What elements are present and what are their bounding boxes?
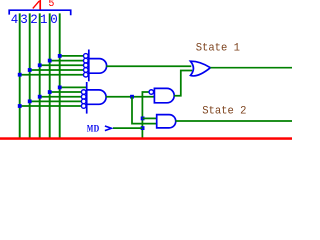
node junction U2out/branch	[130, 95, 134, 99]
node junction bit0/U2	[58, 86, 62, 90]
node junction bit3/U2	[28, 99, 32, 103]
node junction bit1/U2	[48, 90, 52, 94]
wire U3 output riser to U4	[174, 71, 192, 96]
and-gate U1 body	[89, 59, 107, 74]
nand-gate U3 bubble input1	[149, 90, 154, 95]
svg-text:0: 0	[50, 13, 58, 27]
node junction bit4/U2	[18, 104, 22, 108]
or-gate U4	[190, 61, 210, 76]
wire tap to U1 input5	[20, 74, 84, 76]
wire tap to U1 input4	[30, 69, 84, 71]
wire MD tap to U5 input1	[142, 117, 156, 119]
node junction bit2/U1	[38, 63, 42, 67]
U2 inverter bubble pin4	[81, 99, 86, 104]
wire MD pin to riser	[113, 127, 142, 129]
ground rail (red)	[0, 137, 292, 140]
wire bit3 vertical	[29, 13, 31, 137]
and-gate U1 input bar	[88, 50, 90, 82]
U1 inverter bubble pin2	[84, 58, 89, 63]
node junction MD/U5	[141, 117, 145, 121]
wire U4 output State 1	[210, 67, 292, 69]
svg-text:2: 2	[30, 13, 38, 27]
bus entry wire (red, 5-bit bus from top)	[39, 0, 41, 10]
wire bit0 vertical	[59, 13, 61, 137]
svg-text:4: 4	[11, 13, 19, 27]
and-gate U2 body	[87, 90, 106, 104]
wire tap to U2 input2	[50, 91, 82, 93]
wire U5 output State 2	[176, 120, 293, 122]
node junction MD pin	[141, 126, 145, 130]
node junction bit3/U1	[28, 68, 32, 72]
port chevron MD	[105, 126, 112, 131]
nand-gate U3 body	[154, 88, 174, 102]
node junction bit0/U1	[58, 54, 62, 58]
wire bit2 vertical	[39, 13, 41, 137]
wire tap to U2 input1	[60, 86, 86, 88]
svg-text:State 1: State 1	[196, 42, 240, 54]
bus width slash	[33, 1, 39, 8]
svg-text:1: 1	[40, 13, 48, 27]
svg-text:D: D	[94, 123, 100, 134]
U1 inverter bubble pin5	[84, 72, 89, 77]
wire tap to U1 input2	[50, 60, 84, 62]
wire tap to U2 input4	[30, 100, 82, 102]
and-gate U2 input bar	[86, 82, 88, 114]
svg-text:State 2: State 2	[202, 105, 246, 117]
svg-text:5: 5	[48, 0, 54, 10]
svg-text:3: 3	[20, 13, 28, 27]
U2 inverter bubble pin5	[81, 104, 86, 109]
wire bit1 vertical	[49, 13, 51, 137]
wire branch down to U5	[132, 97, 157, 124]
wire U2 output to U3	[106, 96, 155, 98]
wire U1 output to U4	[106, 65, 191, 67]
U1 inverter bubble pin1	[84, 54, 89, 59]
node junction bit2/U2	[38, 95, 42, 99]
node junction bit1/U1	[48, 59, 52, 63]
wire tap to U2 input3	[40, 96, 82, 98]
U2 inverter bubble pin3	[81, 94, 86, 99]
wire bit4 vertical	[19, 13, 21, 137]
U1 inverter bubble pin3	[84, 63, 89, 68]
wire tap to U2 input5	[20, 105, 82, 107]
node junction bit4/U1	[18, 73, 22, 77]
U1 inverter bubble pin4	[84, 68, 89, 73]
U2 inverter bubble pin2	[81, 90, 86, 95]
wire tap to U1 input1	[60, 55, 84, 57]
splitter bracket	[9, 10, 70, 15]
wire MD riser	[142, 92, 149, 138]
and-gate U5 body	[157, 115, 176, 128]
wire tap to U1 input3	[40, 64, 84, 66]
